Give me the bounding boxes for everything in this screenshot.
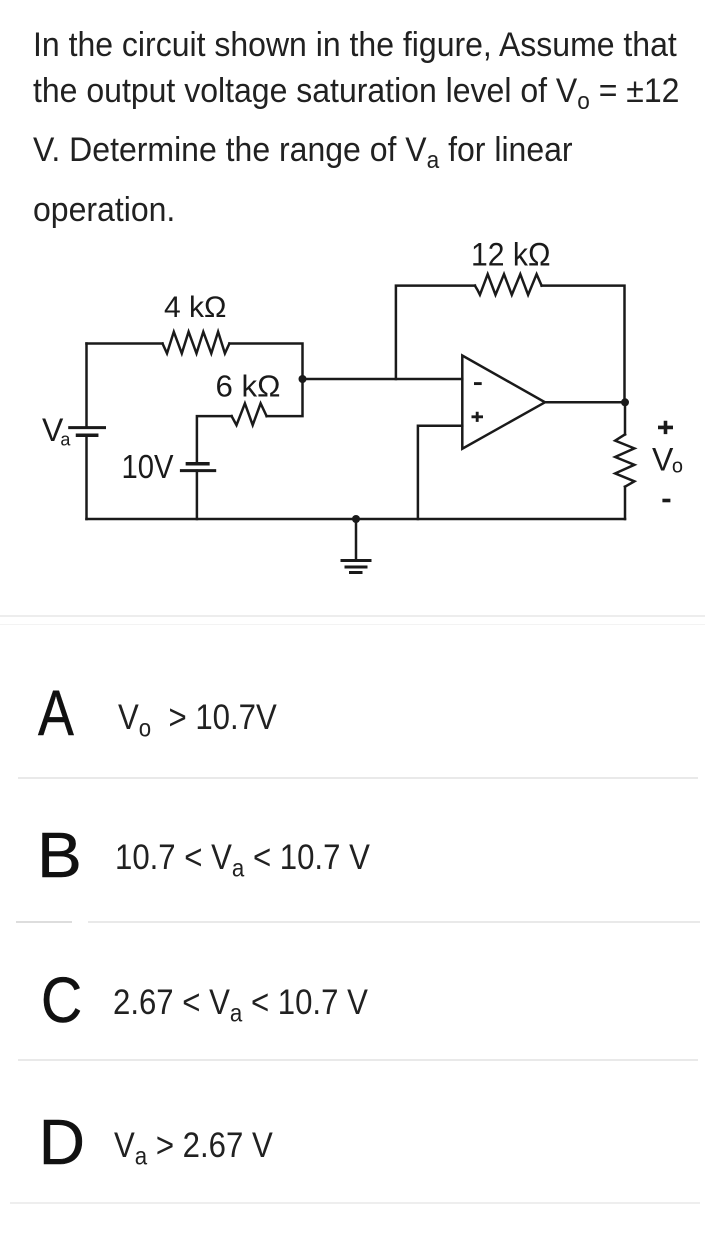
label output plus xyxy=(658,421,673,434)
label output minus xyxy=(662,499,670,503)
battery 10V plate long xyxy=(181,469,214,472)
option C letter xyxy=(41,968,82,1032)
ground node junction dot xyxy=(352,515,360,523)
resistor R3 12k zigzag xyxy=(475,274,542,295)
wire non-inverting input xyxy=(418,426,462,519)
wire 4k to corner xyxy=(229,344,302,380)
wire feedback left vertical xyxy=(396,286,475,379)
svg-text:6 kΩ: 6 kΩ xyxy=(216,369,281,404)
question line 3 xyxy=(33,133,573,167)
ground bar 2 xyxy=(346,566,366,569)
wire node A to op-amp inverting input xyxy=(303,378,463,381)
separator A-B xyxy=(18,777,698,779)
wire load to bottom xyxy=(624,487,627,519)
wire op-amp output xyxy=(545,401,625,404)
wire top-left horizontal xyxy=(87,342,163,345)
svg-text:Va: Va xyxy=(42,412,71,450)
resistor R1 4k zigzag xyxy=(163,332,230,354)
wire output node down xyxy=(624,402,627,434)
wire node A down-left to 6k xyxy=(267,379,303,416)
svg-text:Vo: Vo xyxy=(652,442,683,478)
separator B-C left dash xyxy=(16,921,72,923)
option C text xyxy=(113,985,368,1020)
separator above options line 2 xyxy=(0,624,705,626)
option D text xyxy=(114,1128,273,1163)
wire bottom rail xyxy=(87,518,626,521)
battery Va plate short xyxy=(78,434,97,438)
resistor RL load zigzag xyxy=(615,434,634,486)
wire feedback right to output node xyxy=(542,286,625,402)
option B letter xyxy=(37,823,82,887)
ground bar 1 xyxy=(342,559,370,562)
resistor R2 6k zigzag xyxy=(232,403,267,425)
wire 6k to 10V xyxy=(197,416,232,464)
separator above options line 1 xyxy=(0,615,705,617)
output node junction dot xyxy=(621,398,629,406)
question line 1 xyxy=(33,28,677,62)
battery Va plate long xyxy=(70,426,105,429)
op-amp U1 triangle xyxy=(462,356,545,449)
wire left vertical to Va xyxy=(85,344,88,428)
question line 2 xyxy=(33,74,679,108)
option A letter xyxy=(38,681,74,745)
separator B-C xyxy=(88,921,700,923)
battery 10V plate short xyxy=(187,462,208,466)
separator bottom xyxy=(10,1202,700,1204)
option A text xyxy=(118,700,277,735)
svg-text:10V: 10V xyxy=(122,448,174,485)
option D letter xyxy=(39,1110,85,1174)
question line 4 xyxy=(33,193,175,227)
ground stub xyxy=(355,519,358,560)
svg-text:12 kΩ: 12 kΩ xyxy=(471,237,551,273)
svg-text:4 kΩ: 4 kΩ xyxy=(164,291,227,324)
op-amp plus sign xyxy=(472,412,484,422)
wire 10V to bottom xyxy=(196,471,199,519)
separator C-D xyxy=(18,1059,698,1061)
wire Va to bottom xyxy=(85,435,88,519)
ground bar 3 xyxy=(351,571,362,574)
node A junction dot xyxy=(299,375,307,383)
op-amp minus sign xyxy=(474,382,482,385)
option B text xyxy=(115,840,370,875)
